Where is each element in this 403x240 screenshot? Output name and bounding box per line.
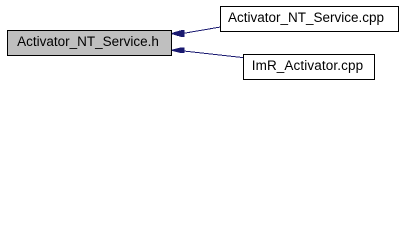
arrowhead into Activator_NT_Service.h (lower) bbox=[171, 48, 184, 53]
wire edge from ImR_Activator.cpp to Activator_NT_Service.h bbox=[179, 51, 243, 58]
node Activator_NT_Service.h (current file, gray) bbox=[7, 30, 172, 56]
wire edge from Activator_NT_Service.cpp to Activator_NT_Service.h bbox=[0, 0, 403, 83]
node Activator_NT_Service.cpp bbox=[220, 6, 399, 32]
node ImR_Activator.cpp bbox=[243, 54, 375, 80]
arrowhead into Activator_NT_Service.h (upper) bbox=[171, 31, 184, 37]
